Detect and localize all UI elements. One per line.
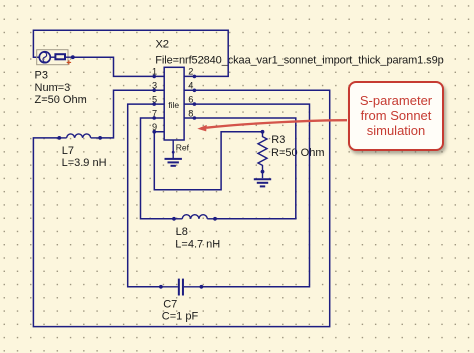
junction port P3 output <box>71 55 75 59</box>
svg-text:X2: X2 <box>156 38 169 50</box>
svg-text:C=1 pF: C=1 pF <box>162 310 199 322</box>
ground for R3 <box>254 172 271 187</box>
resistor R3 <box>258 132 267 172</box>
svg-text:L8: L8 <box>176 226 188 238</box>
svg-text:P3: P3 <box>35 69 48 81</box>
junction pin 3 stub <box>152 89 156 93</box>
svg-text:Z=50 Ohm: Z=50 Ohm <box>35 94 87 106</box>
svg-text:file: file <box>168 100 179 110</box>
wire L8 right to pin8 <box>184 118 296 219</box>
wire port output to pin1 <box>73 57 164 76</box>
junction pin 7 stub <box>152 116 156 120</box>
terminal L8 right <box>213 217 217 221</box>
callout box <box>348 81 444 151</box>
wire pin5 to C7 left <box>128 104 165 287</box>
terminal L8 left <box>172 217 176 221</box>
inductor L7 <box>67 134 91 138</box>
svg-text:R=50 Ohm: R=50 Ohm <box>271 147 325 159</box>
junction pin 2 stub <box>193 75 197 79</box>
terminal R3 top <box>261 130 265 134</box>
terminal R3 bottom <box>261 170 265 174</box>
svg-text:R3: R3 <box>271 134 285 146</box>
inductor L8 <box>182 215 207 219</box>
terminal L7 left <box>57 136 61 140</box>
svg-text:L=3.9 nH: L=3.9 nH <box>62 157 107 169</box>
terminal Ref ground stem <box>172 151 175 154</box>
svg-text:2: 2 <box>188 67 193 77</box>
wire pin2 over top rail to port minus <box>33 30 228 76</box>
junction pin 5 stub <box>152 102 156 106</box>
terminal C7 left <box>159 285 163 289</box>
terminal C7 right <box>200 285 204 289</box>
port P3 <box>37 50 73 65</box>
svg-text:File=nrf52840_ckaa_var1_sonnet: File=nrf52840_ckaa_var1_sonnet_import_th… <box>155 55 443 67</box>
junction pin 4 stub <box>193 89 197 93</box>
terminal L7 right <box>98 136 102 140</box>
junction pin 6 stub <box>193 102 197 106</box>
S-parameter block X2 body <box>164 67 184 140</box>
ground for X2 Ref pin <box>165 140 182 166</box>
callout leader arrow <box>207 120 348 128</box>
svg-text:8: 8 <box>188 108 193 118</box>
wire C7 right to pin6 <box>184 104 309 287</box>
svg-text:Num=3: Num=3 <box>35 82 71 94</box>
svg-text:Ref: Ref <box>176 142 190 152</box>
svg-text:L7: L7 <box>62 145 74 157</box>
junction pin 9 stub <box>152 130 156 134</box>
svg-text:C7: C7 <box>163 299 177 311</box>
svg-text:6: 6 <box>188 94 193 104</box>
wire L7 left down left rail, bottom rail, up to pin4 <box>33 90 329 326</box>
junction pin 8 stub <box>193 116 197 120</box>
capacitor C7 <box>161 279 202 296</box>
wire pin7 to L8 left <box>141 118 175 219</box>
junction pin 1 stub <box>152 75 156 79</box>
svg-text:4: 4 <box>188 81 193 91</box>
wire pin3 to L7 right <box>100 90 164 138</box>
wire pin9 loop to R3 top <box>154 132 262 190</box>
svg-text:L=4.7 nH: L=4.7 nH <box>175 238 220 250</box>
